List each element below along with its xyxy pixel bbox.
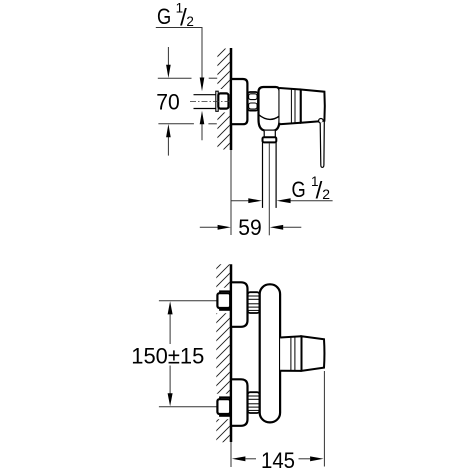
handle cone (bottom view): [302, 336, 325, 371]
pipe diameter arrow up (from below): [200, 111, 205, 140]
escutcheon (top view): [231, 79, 247, 124]
extension line from handle to 145 dim: [323, 371, 325, 467]
wall line: [230, 48, 233, 150]
G1/2 hose leader: left piece: [231, 198, 263, 203]
washer bottom connection: [220, 397, 230, 416]
extension line bottom connection: [159, 406, 217, 408]
145 dimension: [232, 448, 324, 470]
wall extension line down to 59 dim: [230, 150, 232, 235]
outlet neck: [264, 131, 275, 138]
svg-text:G: G: [157, 4, 171, 29]
outlet nut (bold): [263, 137, 277, 142]
hose center line / 59 extension: [268, 143, 270, 235]
union top (body side, bottom view): [248, 292, 260, 313]
G1/2 top leader: [156, 28, 202, 81]
wall cutout for union nut: [215, 89, 230, 112]
escutcheon bottom (bottom view): [231, 379, 248, 426]
union bottom (body side, bottom view): [248, 392, 260, 413]
svg-text:145: 145: [261, 448, 295, 470]
washer: [216, 91, 218, 111]
washer top connection: [220, 291, 230, 310]
G1/2 hose label: [292, 174, 331, 205]
pipe center line: [190, 101, 230, 103]
svg-text:G: G: [292, 177, 306, 202]
union nut (through wall): [218, 93, 228, 108]
svg-text:59: 59: [238, 215, 262, 240]
G1/2 leader arrow down (to pipe top): [200, 78, 205, 92]
nut bottom connection: [217, 399, 230, 414]
svg-text:150±15: 150±15: [131, 343, 204, 368]
escutcheon top (bottom view): [231, 282, 248, 327]
cartridge ring 1: [280, 88, 301, 124]
mixer body (flask): [259, 87, 280, 131]
svg-text:2: 2: [322, 186, 330, 202]
body dome arc: [259, 115, 280, 120]
wall hatching (bottom view): [214, 243, 233, 469]
wall hatching (top view): [217, 33, 232, 174]
wall extension to 145 dim: [230, 442, 232, 467]
shower hose lines: [263, 142, 277, 208]
G1/2 hose leader: right piece w/ underline: [277, 198, 333, 203]
inlet pipe: [194, 95, 219, 109]
59 dimension: [200, 215, 301, 240]
body capsule (bottom view): [260, 284, 280, 422]
150±15 dimension: [131, 301, 204, 406]
svg-text:2: 2: [186, 14, 194, 29]
lever (pointing down): [320, 122, 324, 168]
70 dim line upper: [158, 77, 192, 79]
70 dim arrow bottom: [166, 124, 171, 156]
wall cutouts for nuts: [214, 288, 230, 314]
spout ring 1 (bottom view): [280, 336, 301, 371]
extension line top connection: [159, 300, 217, 302]
svg-text:70: 70: [156, 90, 180, 115]
nut top connection: [217, 293, 230, 308]
G1/2 top label: [157, 0, 194, 31]
pivot circle: [319, 119, 324, 124]
70 dim arrow top: [166, 47, 171, 78]
hex union (body side): [248, 92, 258, 111]
handle cone: [301, 90, 325, 123]
wall line (bottom view): [230, 264, 233, 442]
70 dim line lower: [158, 123, 194, 125]
